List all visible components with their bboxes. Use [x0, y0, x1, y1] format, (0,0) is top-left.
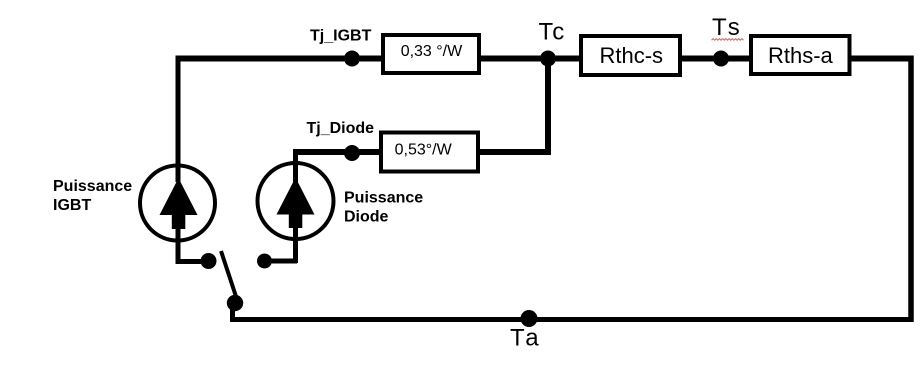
svg-text:Ts: Ts — [712, 14, 744, 41]
svg-text:Rthc-s: Rthc-s — [600, 43, 664, 68]
svg-text:Tj_IGBT: Tj_IGBT — [310, 27, 372, 44]
svg-text:Diode: Diode — [344, 209, 389, 226]
svg-text:IGBT: IGBT — [53, 197, 91, 214]
svg-text:Puissance: Puissance — [344, 190, 423, 207]
svg-text:Ta: Ta — [510, 325, 542, 352]
svg-text:0,33 °/W: 0,33 °/W — [401, 43, 463, 60]
svg-text:Rths-a: Rths-a — [768, 43, 834, 68]
svg-text:Puissance: Puissance — [53, 178, 132, 195]
svg-text:Tc: Tc — [539, 19, 567, 46]
svg-text:0,53°/W: 0,53°/W — [395, 142, 453, 159]
svg-text:Tj_Diode: Tj_Diode — [307, 120, 375, 137]
